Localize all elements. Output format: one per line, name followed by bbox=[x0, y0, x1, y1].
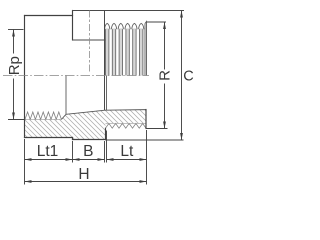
H arrow right bbox=[140, 180, 147, 183]
lower step hex to thread root bbox=[105, 128, 107, 139]
B arrow left bbox=[73, 158, 80, 161]
H dimension line bbox=[25, 181, 147, 183]
hex hidden corner line (dashed) bbox=[89, 11, 91, 74]
C arrow up bbox=[180, 11, 183, 18]
R arrow down bbox=[163, 122, 166, 129]
left socket internal thread teeth (section) bbox=[25, 112, 61, 119]
svg-text:B: B bbox=[83, 143, 93, 160]
extension line thread start bbox=[106, 131, 108, 163]
R extension line top bbox=[147, 21, 167, 23]
R dimension line bbox=[164, 22, 166, 129]
svg-text:Rp: Rp bbox=[6, 56, 23, 75]
male thread end face (lower) bbox=[145, 110, 147, 129]
hex flat edge line bbox=[73, 39, 107, 41]
male thread crest arches and flank lines (upper half) bbox=[105, 23, 144, 75]
Rp dimension line bbox=[13, 30, 15, 120]
Rp arrow up bbox=[12, 30, 15, 37]
R arrow up bbox=[163, 22, 166, 29]
hex right face bbox=[104, 11, 106, 111]
svg-text:C: C bbox=[183, 69, 193, 85]
extension line hex left bbox=[72, 141, 74, 163]
body left end face bbox=[24, 16, 26, 138]
male thread crest shading bands bbox=[106, 30, 143, 76]
svg-text:Lt: Lt bbox=[120, 143, 134, 160]
C arrow down bbox=[180, 133, 183, 140]
left thread root line bbox=[25, 118, 62, 120]
svg-text:Lt1: Lt1 bbox=[37, 143, 59, 160]
R extension line bottom bbox=[146, 128, 168, 130]
bore shoulder edge (seen through bore) bbox=[65, 76, 67, 115]
centerline (dash-dot) bbox=[3, 75, 149, 77]
Lt1 arrow left bbox=[25, 158, 32, 161]
Lt1 dimension line bbox=[25, 159, 73, 161]
B arrow right bbox=[98, 158, 105, 161]
male thread root line upper bbox=[105, 28, 145, 30]
extension line from left face bbox=[24, 139, 26, 185]
extension line hex right bbox=[104, 141, 106, 163]
thread tip end face (upper) bbox=[145, 22, 147, 76]
section hatching (cut walls, lower half) bbox=[0, 100, 190, 145]
hex bottom edge bbox=[73, 139, 106, 141]
Rp arrow down bbox=[12, 113, 15, 120]
socket bottom outer edge bbox=[25, 137, 73, 139]
Rp extension line top bbox=[8, 29, 24, 31]
C extension line bottom bbox=[106, 139, 184, 141]
hex lower-left step bbox=[72, 138, 74, 140]
hex top edge merged with C extension line bbox=[73, 10, 184, 12]
male thread teeth (lower section) bbox=[106, 123, 147, 128]
B dimension line bbox=[73, 159, 105, 161]
male thread root line lower bbox=[106, 122, 147, 124]
svg-text:R: R bbox=[156, 70, 173, 81]
male thread start face bbox=[106, 40, 108, 110]
thread runout chamfer to shoulder bbox=[61, 114, 66, 119]
hex left face bbox=[72, 11, 74, 41]
thread tip chamfer line bbox=[144, 24, 146, 76]
Lt arrow left bbox=[107, 158, 114, 161]
extension line thread tip bbox=[146, 130, 148, 185]
Lt arrow right bbox=[140, 158, 147, 161]
H arrow left bbox=[25, 180, 32, 183]
Lt1 arrow right bbox=[66, 158, 73, 161]
svg-text:H: H bbox=[78, 166, 89, 183]
Rp extension line bottom bbox=[8, 119, 25, 121]
socket top outer edge bbox=[25, 15, 73, 17]
tapered bore line bbox=[66, 110, 146, 115]
C dimension line bbox=[181, 11, 183, 141]
Lt dimension line bbox=[107, 159, 147, 161]
